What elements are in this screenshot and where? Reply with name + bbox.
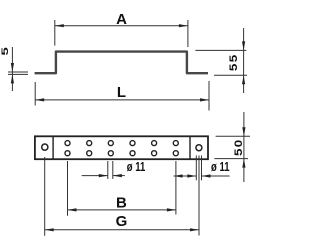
holes top row bbox=[65, 141, 178, 146]
dimension A arrow left bbox=[55, 24, 64, 27]
dimension 55 arrow up bbox=[242, 75, 245, 84]
bracket profile (side view) bbox=[35, 52, 208, 74]
dimension G line bbox=[45, 229, 199, 231]
dimension 50 arrow down bbox=[242, 127, 245, 136]
diameter 11 left tick 2 bbox=[112, 161, 114, 179]
diameter 11 right arrow left bbox=[202, 174, 211, 177]
dimension G extension line right bbox=[198, 156, 200, 236]
diameter 11 right tick 1 bbox=[195, 156, 197, 181]
dimension 55 arrow down bbox=[242, 41, 245, 50]
svg-text:G: G bbox=[116, 213, 128, 230]
dimension B line bbox=[68, 209, 176, 211]
dimension B extension line left bbox=[67, 161, 69, 216]
svg-text:ø 11: ø 11 bbox=[127, 159, 146, 174]
dimension G arrow left bbox=[45, 228, 54, 231]
dimension B arrow right bbox=[167, 208, 176, 211]
holes bottom row bbox=[65, 151, 178, 156]
dimension 55 extension line top bbox=[195, 49, 246, 51]
dimension L arrow left bbox=[35, 98, 44, 101]
dimension G arrow right bbox=[190, 228, 199, 231]
diameter 11 right line right segment bbox=[202, 175, 230, 177]
dimension 50 line vertical bbox=[243, 112, 245, 182]
dimension 5 arrow down bbox=[11, 63, 14, 72]
dimension 5 arrow up bbox=[11, 74, 14, 83]
diameter 11 right arrow tail left bbox=[174, 174, 183, 177]
dimension 5 extension dash upper bbox=[8, 71, 28, 73]
dimension G extension line left bbox=[44, 157, 46, 236]
diameter 11 right tick 2 bbox=[201, 156, 203, 181]
dimension L extension line left bbox=[34, 82, 36, 106]
dimension A line bbox=[55, 25, 188, 27]
svg-text:A: A bbox=[116, 11, 127, 28]
left end hole bbox=[42, 144, 48, 150]
dimension 50 extension line top bbox=[216, 135, 250, 137]
dimension A arrow right bbox=[179, 24, 188, 27]
diameter 11 left line left segment bbox=[82, 175, 108, 177]
diameter 11 left arrow left bbox=[113, 174, 122, 177]
dimension L arrow right bbox=[200, 98, 209, 101]
svg-text:50: 50 bbox=[232, 138, 245, 156]
dimension 50 extension line bottom bbox=[214, 158, 248, 160]
dimension 50 arrow up bbox=[242, 159, 245, 168]
dimension B extension line right bbox=[175, 161, 177, 215]
dimension 55 line vertical bbox=[243, 28, 245, 93]
dimension 55 extension line bottom bbox=[214, 74, 247, 76]
plate outline (front view) bbox=[35, 136, 208, 159]
plate divider right bbox=[189, 136, 191, 159]
diameter 11 left tick 1 bbox=[107, 161, 109, 179]
svg-text:5: 5 bbox=[0, 47, 10, 55]
dimension 5 extension dash lower bbox=[8, 73, 28, 75]
svg-text:L: L bbox=[117, 84, 126, 101]
dimension L line bbox=[35, 99, 209, 101]
dimension 5 line vertical bbox=[11, 47, 13, 91]
diameter 11 right arrow right bbox=[187, 174, 196, 177]
diameter 11 right line left segment bbox=[174, 175, 197, 177]
diameter 11 left arrow right bbox=[99, 174, 108, 177]
right end hole bbox=[196, 145, 202, 151]
dimension B arrow left bbox=[68, 208, 77, 211]
diameter 11 left line right segment bbox=[113, 175, 125, 177]
plate divider left bbox=[52, 136, 54, 159]
svg-text:ø 11: ø 11 bbox=[211, 159, 230, 174]
svg-text:55: 55 bbox=[227, 53, 240, 71]
dimension A extension line right bbox=[187, 20, 189, 47]
dimension A extension line left bbox=[54, 20, 56, 46]
dimension L extension line right bbox=[208, 81, 210, 111]
svg-text:B: B bbox=[116, 195, 127, 212]
